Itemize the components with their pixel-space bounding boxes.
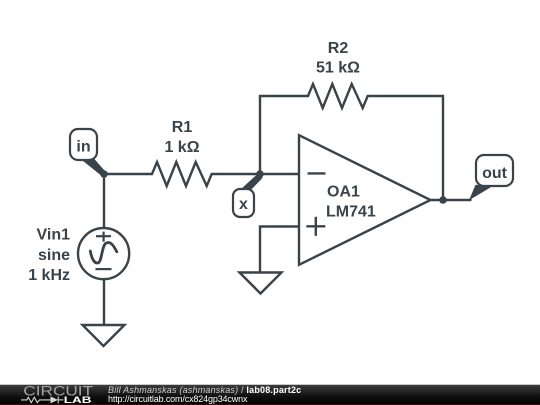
footer bar (0, 384, 540, 405)
resistor R2 (308, 84, 368, 108)
svg-text:out: out (482, 165, 508, 182)
op-amp minus pin marker (308, 172, 326, 174)
svg-text:LAB: LAB (64, 395, 92, 405)
Vin1 sine wave (90, 243, 117, 263)
leader for out flag (469, 185, 493, 200)
svg-text:sine: sine (38, 247, 70, 264)
svg-text:R1: R1 (172, 119, 193, 136)
wire op-amp output to node (431, 199, 443, 201)
ground at op-amp non-inverting input (240, 273, 282, 294)
wire in-node to R1 (104, 173, 152, 175)
op-amp plus pin marker (306, 225, 325, 227)
svg-text:Vin1: Vin1 (37, 227, 71, 244)
leader for in flag (82, 156, 107, 176)
wire R1 to op-amp inverting input (212, 173, 299, 175)
footer attribution text (108, 386, 301, 405)
Vin1 minus marker (96, 268, 112, 270)
resistor R1 (152, 162, 212, 186)
flag out (476, 155, 513, 186)
wire output node to out flag (443, 199, 471, 201)
flag x (233, 189, 254, 217)
leader for x flag (241, 174, 263, 194)
svg-text:1 kΩ: 1 kΩ (164, 139, 199, 156)
svg-text:LM741: LM741 (326, 204, 376, 221)
node in junction dot (100, 170, 108, 178)
svg-text:x: x (239, 196, 248, 213)
wire op-amp non-inverting input (260, 227, 299, 273)
wire Vin1 to ground (103, 279, 105, 325)
voltage source Vin1 circle (78, 228, 129, 279)
ground below Vin1 (83, 325, 125, 346)
Vin1 plus marker (96, 235, 111, 237)
svg-text:1 kHz: 1 kHz (28, 267, 70, 284)
svg-text:OA1: OA1 (327, 184, 360, 201)
svg-text:R2: R2 (328, 40, 349, 57)
node out junction dot (439, 196, 447, 204)
wire R2 to right corner and down to output node (368, 96, 443, 200)
op-amp OA1 triangle (299, 135, 431, 265)
node x junction dot (256, 170, 264, 178)
svg-text:in: in (76, 139, 90, 156)
flag in (70, 129, 97, 160)
wire in-node down to Vin1 (103, 174, 105, 228)
wire node x up to feedback and left corner to R2 (260, 96, 308, 174)
CircuitLab logo (18, 384, 100, 405)
svg-text:51 kΩ: 51 kΩ (316, 60, 360, 77)
